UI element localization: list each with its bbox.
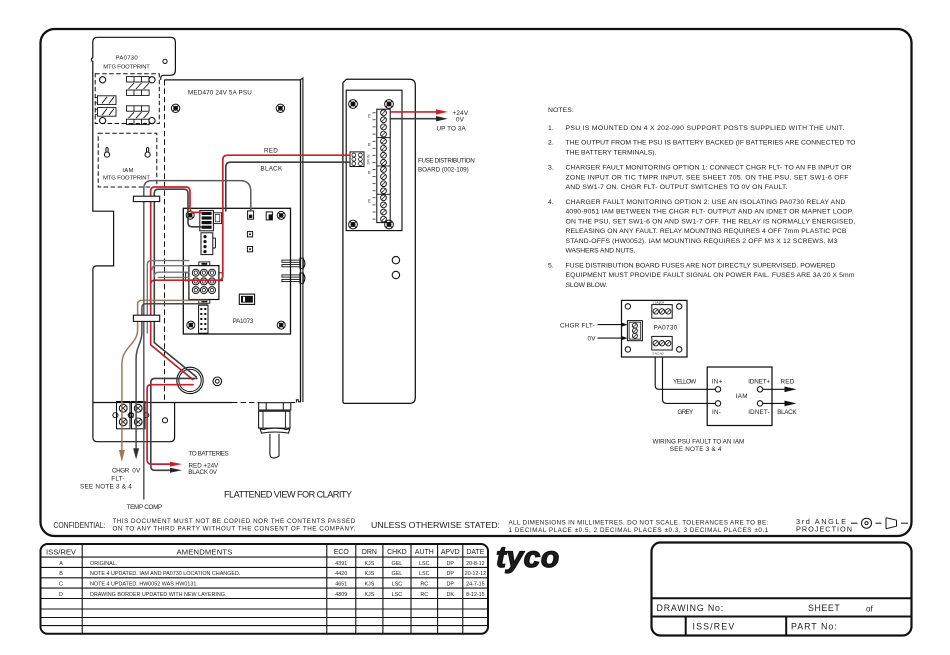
svg-text:0V: 0V [588,335,597,342]
svg-text:IDNET+: IDNET+ [748,379,770,386]
svg-text:2.: 2. [548,140,554,147]
svg-text:ISS/REV: ISS/REV [693,622,735,632]
svg-text:20-8-12: 20-8-12 [466,561,485,567]
IAM terminals [715,387,762,407]
fuse board screw BL [349,220,358,229]
svg-text:SEE NOTE 3 & 4: SEE NOTE 3 & 4 [670,446,722,453]
revision table column lines [82,544,463,634]
svg-text:THE OUTPUT FROM THE PSU IS BAT: THE OUTPUT FROM THE PSU IS BATTERY BACKE… [566,140,856,147]
revision row C [59,582,485,588]
svg-text:IAM: IAM [736,393,748,400]
svg-text:PROJECTION: PROJECTION [796,525,852,534]
wire grey connector stub 4 [158,276,189,278]
PSU mounting screw top-right [276,104,284,112]
svg-text:MED470 24V 5A PSU: MED470 24V 5A PSU [188,89,252,96]
svg-text:GEL: GEL [392,561,403,567]
svg-text:E: E [368,170,371,175]
svg-text:CHGR FLT-: CHGR FLT- [560,322,595,329]
svg-text:DRAWING BORDER UPDATED WITH NE: DRAWING BORDER UPDATED WITH NEW LAYERING… [90,592,226,598]
svg-text:PA1073: PA1073 [233,318,254,325]
cable clamp lower [133,315,159,321]
svg-text:ON THE PSU, SET SW1-6 ON AND S: ON THE PSU, SET SW1-6 ON AND SW1-7 OFF. … [566,218,856,225]
main multi-pin connector [186,262,223,303]
svg-text:ALL DIMENSIONS IN MILLIMETRES.: ALL DIMENSIONS IN MILLIMETRES. DO NOT SC… [509,519,769,526]
test point 1 [247,232,252,237]
input connector on fuse board [350,152,364,167]
svg-text:MTG FOOTPRINT: MTG FOOTPRINT [103,176,150,182]
svg-text:C: C [59,582,63,588]
PA1073 screw top-left [186,211,194,219]
revision table box [41,544,489,634]
svg-text:4090-9051 IAM BETWEEN THE CHGR: 4090-9051 IAM BETWEEN THE CHGR FLT- OUTP… [566,209,854,216]
svg-text:ORIGINAL.: ORIGINAL. [90,561,117,567]
PA0730 footprint mounting holes [100,77,156,124]
svg-text:RC: RC [420,592,428,598]
svg-text:STAND-OFFS (HW0052). IAM MOUNT: STAND-OFFS (HW0052). IAM MOUNTING REQUIR… [566,238,838,245]
fuse board screw TR [385,100,394,109]
svg-text:PART No:: PART No: [791,622,837,632]
PA1073 screw bottom-left [187,321,195,329]
svg-text:DP: DP [446,571,454,577]
svg-text:NOTE 4 UPDATED. HW0052 WAS HW0: NOTE 4 UPDATED. HW0052 WAS HW0131. [90,582,198,588]
PA0730 footprint relay outline left [95,96,116,116]
svg-text:FUSE DISTRIBUTION: FUSE DISTRIBUTION [418,158,475,165]
svg-text:LSC: LSC [392,582,403,588]
fuse board [346,90,402,230]
chassis back-plate outline (flattened) [98,37,176,80]
drawing sheet outer border [41,29,912,536]
chgr flt down arrowhead [119,450,125,462]
svg-text:IN+: IN+ [712,379,723,386]
PSU board MED470 [165,80,301,403]
svg-text:KJS: KJS [364,561,374,567]
svg-text:THE BATTERY TERMINALS).: THE BATTERY TERMINALS). [566,149,657,156]
svg-text:GEL: GEL [392,571,403,577]
wire grey loop to board [154,189,201,377]
output terminal strip [377,109,390,222]
PA1073 screw bottom-right [277,321,285,329]
grey wire relay to IAM [663,357,716,403]
strain relief loop [177,367,203,393]
svg-text:UNLESS OTHERWISE STATED:: UNLESS OTHERWISE STATED: [371,520,500,530]
svg-text:RED: RED [264,148,278,155]
svg-text:TEMP COMP: TEMP COMP [127,504,163,511]
svg-text:E: E [368,198,371,203]
svg-text:AND SW1-7 ON. CHGR FLT- OUTPUT: AND SW1-7 ON. CHGR FLT- OUTPUT SWITCHES … [566,184,788,191]
svg-text:24V IN: 24V IN [367,154,371,164]
svg-text:MTG FOOTPRINT: MTG FOOTPRINT [103,65,150,71]
svg-text:0V: 0V [456,117,465,124]
relay NO terminal top [652,305,672,319]
IAM mtg footprint dashed box [98,133,157,187]
battery black arrowhead [170,468,182,473]
svg-text:CONFIDENTIAL:: CONFIDENTIAL: [53,521,105,530]
svg-text:4391: 4391 [335,561,347,567]
svg-text:RED: RED [781,379,795,386]
jumper JP2 [266,212,272,220]
small chassis hole [163,59,167,63]
bottom left terminal block A [117,402,131,429]
svg-text:GREY: GREY [678,409,695,416]
cable gland [259,403,291,458]
wire red PSU to fuse board [151,155,350,284]
svg-text:E: E [368,142,371,147]
svg-text:RELEASING ON ANY FAULT. RELAY: RELEASING ON ANY FAULT. RELAY MOUNTING R… [566,228,847,235]
svg-text:3.: 3. [548,165,554,172]
chgr flt input line [598,324,623,326]
wire red battery exit [147,385,193,464]
svg-text:SEE NOTE 3 & 4: SEE NOTE 3 & 4 [80,484,132,491]
svg-text:RC: RC [420,582,428,588]
yellow wire relay to IAM [655,357,715,389]
svg-text:THIS DOCUMENT MUST NOT BE COPI: THIS DOCUMENT MUST NOT BE COPIED NOR THE… [113,518,356,525]
svg-text:8-12-15: 8-12-15 [466,592,485,598]
test point 2 [247,247,252,252]
PA0730 footprint upper terminal block [127,77,150,96]
PSU hole by strain relief [213,377,222,386]
chassis left edge with notch [91,37,174,441]
svg-text:ZONE INPUT OR TIC TMPR INPUT.: ZONE INPUT OR TIC TMPR INPUT. SEE SHEET … [566,174,849,181]
svg-text:WIRING PSU FAULT TO AN IAM: WIRING PSU FAULT TO AN IAM [653,438,745,445]
fuse panel chassis plate [343,79,415,403]
4-pin header [201,233,215,255]
cable clamp upper [133,196,159,201]
svg-text:PA0730: PA0730 [116,56,139,62]
svg-text:4.: 4. [548,199,554,206]
chassis fold line right of PSU [301,78,303,402]
PSU mounting screw top-left [171,104,179,112]
svg-text:5.: 5. [548,262,554,269]
fuse board screw BR [385,220,394,229]
stand-off post lower [282,273,305,283]
svg-text:PSU IS MOUNTED ON 4 X 202-090: PSU IS MOUNTED ON 4 X 202-090 SUPPORT PO… [566,125,845,132]
PSU board left edge (hidden) [164,80,166,403]
2x5 pin header [199,305,208,333]
PA0730 relay board [622,300,688,357]
wire grey connector stub 2 [152,266,189,270]
svg-text:ON TO ANY THIRD PARTY WITHOUT: ON TO ANY THIRD PARTY WITHOUT THE CONSEN… [113,526,356,533]
svg-text:5 NC NO: 5 NC NO [653,352,665,356]
wire grey connector stub 1 [147,261,189,333]
svg-text:A: A [59,561,63,567]
svg-text:tyco: tyco [496,541,560,574]
red output arrow [763,388,785,390]
svg-text:ISS/REV: ISS/REV [46,547,77,556]
svg-text:CHKD: CHKD [387,549,407,556]
PA0730 mtg footprint dashed box [95,74,159,124]
svg-text:DRN: DRN [362,549,377,556]
IAM footprint slots [104,148,150,158]
relay board holes [625,304,682,352]
CHGR FLT terminal connector [200,210,222,230]
svg-text:BOARD (002-109): BOARD (002-109) [418,167,469,174]
PA1073 screw top-right [277,211,285,219]
wire grey connector stub 3 [154,272,189,276]
chassis bottom edge [93,402,232,404]
svg-text:E: E [368,113,371,118]
svg-text:APVD: APVD [441,549,460,556]
svg-text:CHARGER FAULT MONITORING OPTIO: CHARGER FAULT MONITORING OPTION 1: CONNE… [566,165,852,172]
revision table row lines [41,557,489,626]
svg-text:B: B [59,571,63,577]
svg-text:TO BATTERIES: TO BATTERIES [189,451,230,458]
svg-text:FUSE DISTRIBUTION BOARD FUSES: FUSE DISTRIBUTION BOARD FUSES ARE NOT DI… [566,262,836,269]
black output arrow [763,402,785,404]
svg-text:PA0730: PA0730 [654,325,678,332]
svg-text:SHEET: SHEET [808,603,840,613]
svg-text:IAM: IAM [122,168,133,174]
relay input terminal [627,321,642,341]
wire brown chgr flt [122,300,208,451]
0v input line [598,337,623,339]
svg-text:BLACK 0V: BLACK 0V [188,469,218,476]
0v down arrowhead [133,448,139,459]
svg-text:CHARGER FAULT MONITORING OPTIO: CHARGER FAULT MONITORING OPTION 2: USE A… [566,199,846,206]
svg-text:of: of [866,605,873,614]
svg-text:WASHERS AND NUTS.: WASHERS AND NUTS. [566,248,636,255]
svg-text:AUTH: AUTH [415,549,434,556]
panel holes [392,256,399,263]
svg-text:BLACK: BLACK [777,409,797,416]
PA0730 footprint lower terminal block [127,106,150,125]
svg-text:0V: 0V [132,468,141,475]
svg-text:LSC: LSC [419,561,430,567]
fuse board screw TL [349,100,358,109]
svg-text:FLATTENED VIEW FOR CLARITY: FLATTENED VIEW FOR CLARITY [224,489,352,499]
wire black PSU to fuse board [226,162,350,211]
revision row D [59,592,485,598]
svg-text:DP: DP [446,561,454,567]
wire black battery exit [151,378,197,470]
svg-text:IDNET-: IDNET- [748,409,770,416]
wire red loop to board [151,187,202,380]
svg-text:4420: 4420 [335,571,347,577]
relay NC terminal bottom [652,336,672,350]
wire black 0v [136,304,207,450]
svg-text:DATE: DATE [466,549,484,556]
title block box [652,543,912,636]
revision row B [59,571,486,577]
svg-text:KJS: KJS [364,592,374,598]
revision row A [59,561,485,567]
bottom left terminal block B [132,402,146,429]
fuse markings [368,113,371,203]
+24V output arrow [390,111,436,113]
svg-text:D: D [59,592,63,598]
svg-text:1.: 1. [548,125,554,132]
svg-text:DP: DP [446,582,454,588]
svg-text:LSC: LSC [392,592,403,598]
svg-text:DRAWING No:: DRAWING No: [657,603,724,613]
IAM box [707,367,772,426]
svg-text:NOTE 4 UPDATED. IAM AND PA0730: NOTE 4 UPDATED. IAM AND PA0730 LOCATION … [90,571,240,577]
svg-text:DK: DK [446,592,454,598]
svg-text:20-12-12: 20-12-12 [465,571,487,577]
svg-text:KJS: KJS [364,571,374,577]
svg-text:24-7-15: 24-7-15 [466,582,485,588]
svg-text:SLOW BLOW.: SLOW BLOW. [566,282,608,289]
svg-text:1 2A@24: 1 2A@24 [653,301,665,305]
svg-text:4651: 4651 [335,582,347,588]
svg-text:IN-: IN- [712,409,721,416]
jumper JP1 [248,211,254,219]
flange hole [162,418,167,423]
PA1073 board outline [183,208,290,334]
3rd angle projection symbol [851,518,908,529]
svg-text:ECO: ECO [334,549,350,556]
stand-off post upper [282,258,305,268]
svg-text:EQUIPMENT MUST PROVIDE FAULT S: EQUIPMENT MUST PROVIDE FAULT SIGNAL ON P… [566,272,855,279]
battery red arrowhead [170,462,182,467]
fuse terminals [373,110,387,222]
svg-text:CHGR: CHGR [112,468,130,475]
svg-text:NOTES:: NOTES: [548,107,574,114]
svg-text:YELLOW: YELLOW [673,379,697,386]
svg-text:1 DECIMAL PLACE ±0.5, 2 DECIMA: 1 DECIMAL PLACE ±0.5, 2 DECIMAL PLACES ±… [509,527,769,534]
svg-text:KJS: KJS [364,582,374,588]
terminal hex nuts [113,413,149,418]
svg-text:FLT-: FLT- [111,475,124,482]
svg-text:UP TO 3A: UP TO 3A [437,126,467,133]
svg-text:4809: 4809 [335,592,347,598]
svg-text:LSC: LSC [419,571,430,577]
small IC SW1 [239,294,254,304]
wire grey to jumper [144,181,251,499]
svg-text:AMENDMENTS: AMENDMENTS [176,547,232,556]
svg-text:BLACK: BLACK [261,166,283,173]
0V output arrow [390,118,436,120]
